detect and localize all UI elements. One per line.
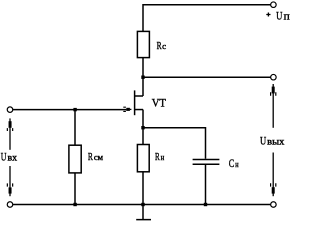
svg-text:VT: VT [152,98,166,110]
wire Rsm bottom [74,173,76,205]
terminal input top [7,107,13,113]
svg-text:с: с [162,42,166,51]
svg-text:U: U [260,136,267,148]
svg-text:U: U [276,11,283,23]
node bottom rail capacitor junction [204,203,207,206]
ground [136,205,151,220]
capacitor Cn bottom plate [193,163,220,165]
svg-text:вых: вых [267,138,284,148]
terminal input bottom [7,202,13,208]
arrow Uin down [7,166,12,196]
node bottom rail Rsm junction [73,203,76,206]
transistor VT channel [134,90,136,115]
resistor Rc [137,31,149,57]
terminal output bottom [271,202,277,208]
node bottom rail ground junction [141,203,144,206]
wire source down to node [142,110,144,145]
terminal +Up [271,2,277,8]
arrow Uout down [271,153,276,197]
node gate-Rsm junction [73,108,76,111]
capacitor Cn top plate [193,159,220,161]
svg-text:н: н [235,160,239,169]
wire Rc bottom to drain [142,58,144,96]
resistor Rn [137,145,149,172]
terminal output top [271,74,277,80]
svg-text:вх: вх [8,154,18,164]
label + Up plus sign [266,13,270,17]
svg-text:см: см [94,153,103,162]
wire Rsm branch [74,110,76,146]
node drain-output junction [141,76,144,79]
svg-text:н: н [161,153,165,162]
svg-text:п: п [284,12,291,23]
wire output top [143,76,271,78]
transistor VT drain lead [135,95,143,97]
svg-text:С: С [229,158,235,170]
arrow Uin up [7,118,12,149]
svg-text:R: R [88,151,93,163]
wire bottom rail [13,204,271,206]
arrow Uout up [271,84,276,128]
wire gate input [13,109,127,111]
wire Rn bottom [142,172,144,205]
svg-text:R: R [155,151,160,163]
wire capacitor bottom [205,165,207,205]
resistor Rsm [69,145,81,173]
wire drain vertical upper [142,4,144,31]
node source junction [141,126,144,129]
transistor VT gate arrowhead [123,107,131,111]
svg-text:U: U [1,152,7,164]
wire top rail [143,4,271,6]
transistor VT source lead [135,109,143,111]
wire node to capacitor branch [143,128,206,159]
